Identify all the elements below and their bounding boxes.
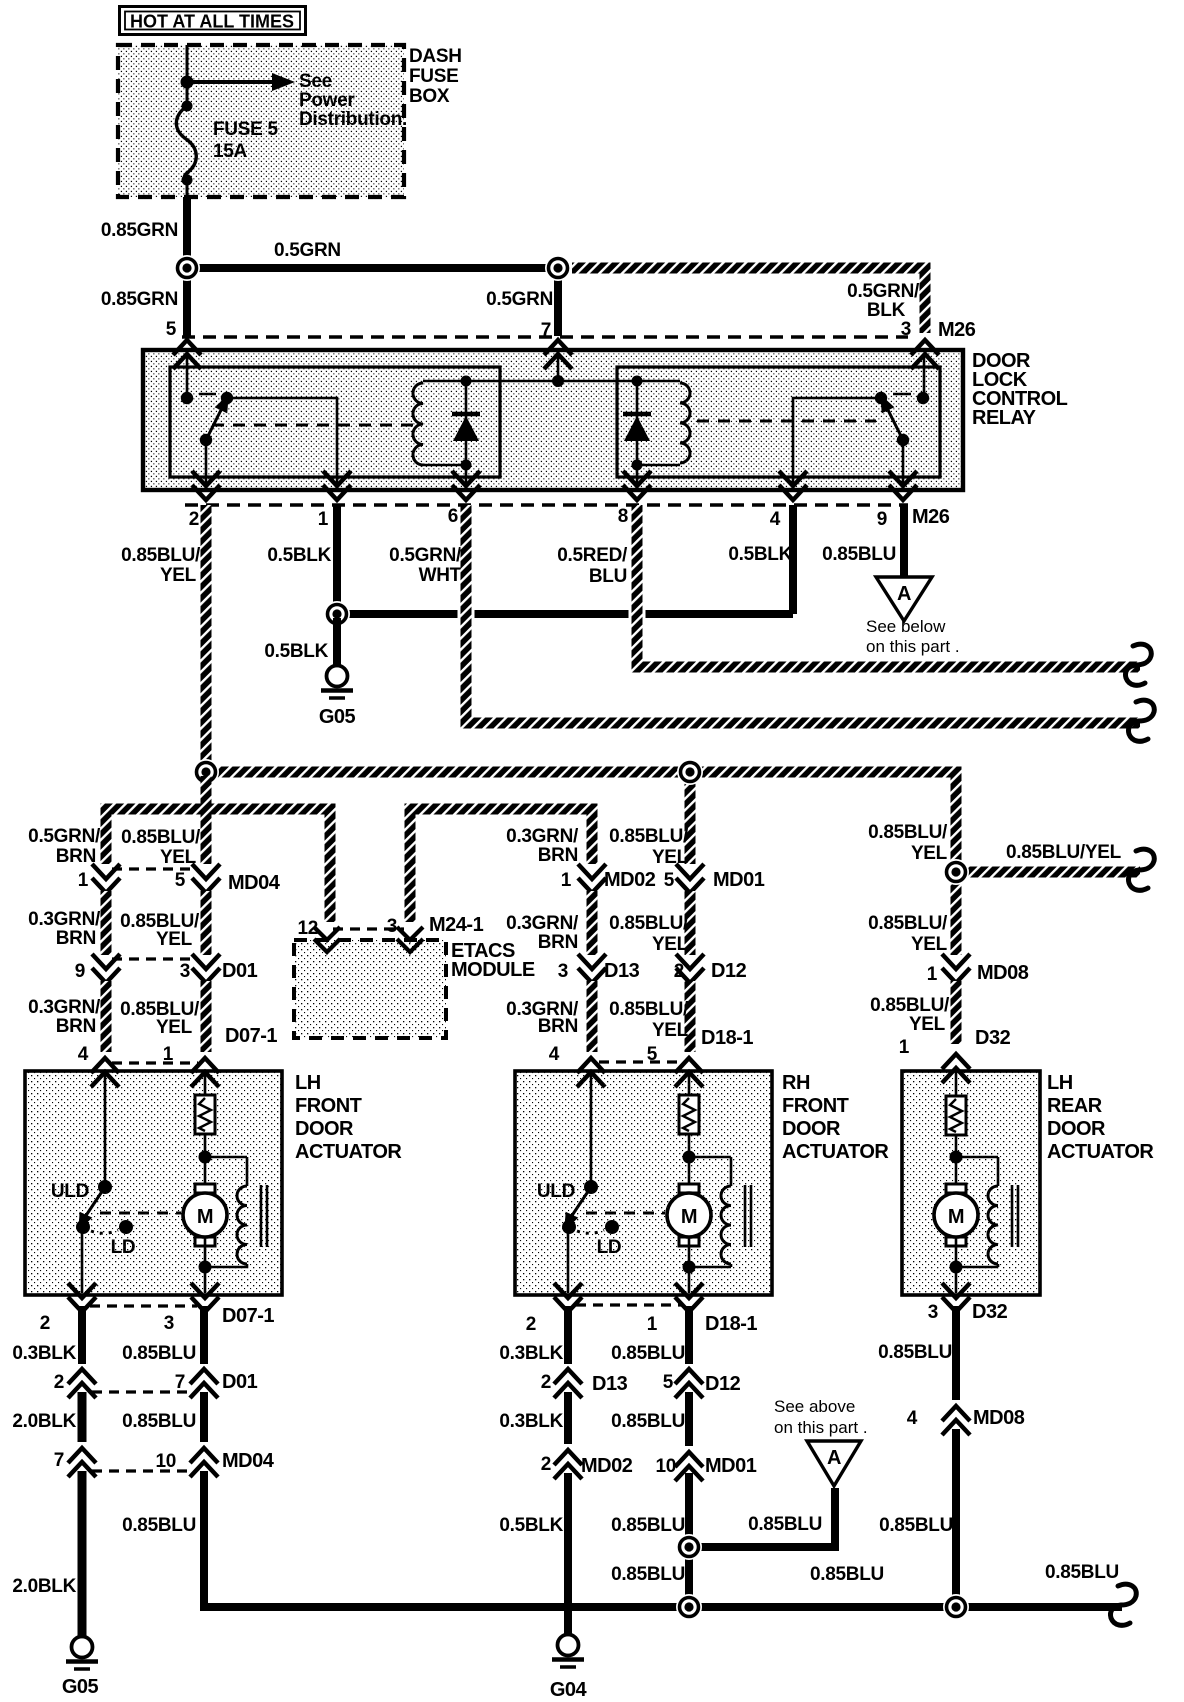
svg-text:10: 10 bbox=[655, 1456, 676, 1477]
core bars rear bbox=[1012, 1185, 1018, 1247]
wire 0.3BLK rh bbox=[564, 1306, 572, 1364]
label 0.85BLU/YEL branch bbox=[1006, 842, 1122, 863]
node bus ring left bbox=[193, 759, 219, 785]
wire 0.85BLU/YEL bus bbox=[206, 772, 956, 866]
svg-text:0.85BLU: 0.85BLU bbox=[822, 544, 896, 565]
hook pin6 wire bbox=[1128, 700, 1154, 741]
module ETACS box bbox=[294, 940, 446, 1038]
svg-text:D13: D13 bbox=[592, 1373, 628, 1395]
label MD02 pin bbox=[561, 870, 572, 891]
wire 0.5BLK to ground bbox=[333, 618, 341, 666]
svg-text:8: 8 bbox=[618, 506, 628, 527]
svg-text:ACTUATOR: ACTUATOR bbox=[295, 1141, 402, 1163]
node relay sw1 common bbox=[200, 434, 212, 446]
wire 0.85GRN to pin 5 bbox=[183, 272, 191, 336]
wire coil branch bottom LH bbox=[205, 1264, 247, 1267]
svg-text:5: 5 bbox=[166, 319, 177, 340]
wire 0.85BLU lh2 bbox=[200, 1392, 208, 1442]
svg-text:0.85BLU: 0.85BLU bbox=[611, 1343, 685, 1364]
mech link K2 dashed bbox=[697, 420, 876, 423]
connector M24-1 pin12 arrows bbox=[314, 927, 340, 952]
svg-text:4: 4 bbox=[770, 509, 781, 530]
svg-text:9: 9 bbox=[877, 509, 887, 530]
svg-text:M26: M26 bbox=[938, 319, 976, 341]
wire coil rail bottom right bbox=[637, 464, 680, 467]
label DASH FUSE BOX bbox=[409, 46, 462, 107]
label 0.3GRN/BRN a bbox=[28, 909, 101, 949]
svg-text:YEL: YEL bbox=[909, 1014, 946, 1035]
wire 2.0BLK lh bbox=[78, 1392, 87, 1442]
label 0.5BLK pin1 bbox=[267, 545, 331, 566]
wire BLU/YEL to MD08 bbox=[951, 878, 962, 955]
svg-text:DOOR: DOOR bbox=[295, 1118, 354, 1140]
connector D01 pin3 arrows bbox=[192, 954, 220, 983]
switch relay K1 contact bbox=[206, 391, 235, 440]
svg-text:0.5BLK: 0.5BLK bbox=[264, 641, 328, 662]
svg-text:0.85BLU: 0.85BLU bbox=[810, 1564, 884, 1585]
relay inner box right bbox=[617, 367, 940, 477]
label D32 top bbox=[975, 1027, 1011, 1049]
label 0.5BLK ground bbox=[264, 641, 328, 662]
motor M LH bbox=[183, 1184, 227, 1246]
label 0.3BLK rh2 bbox=[499, 1411, 563, 1432]
label 0.5GRN/BLK bbox=[847, 281, 920, 321]
wire 0.5GRN/BLK hatched to pin 3 bbox=[572, 268, 925, 333]
pin 3 entry arrows bbox=[911, 340, 939, 369]
ground G04 bbox=[552, 1618, 584, 1667]
breaker rear bbox=[946, 1096, 966, 1135]
node K2 bottom bbox=[632, 460, 643, 471]
svg-text:FUSE 5: FUSE 5 bbox=[213, 119, 278, 140]
wire sw1 NC to pin1 bbox=[227, 398, 337, 489]
svg-text:0.85BLU: 0.85BLU bbox=[122, 1411, 196, 1432]
svg-text:BRN: BRN bbox=[56, 846, 96, 867]
connector D01 bottom arrows bbox=[68, 1369, 218, 1398]
pin 8 exit arrows bbox=[623, 471, 651, 500]
label D12 bbox=[711, 960, 747, 982]
svg-text:0.85BLU/: 0.85BLU/ bbox=[609, 913, 689, 934]
connector MD01 bottom arrows bbox=[675, 1452, 703, 1481]
svg-text:A: A bbox=[897, 583, 911, 605]
label 0.85BLU/YEL col right bbox=[868, 822, 948, 864]
node BLU/YEL right ring bbox=[943, 859, 969, 885]
svg-text:0.3GRN/: 0.3GRN/ bbox=[506, 913, 579, 934]
wire pin3 internal bbox=[923, 356, 926, 396]
coil solenoid LH bbox=[237, 1186, 247, 1264]
svg-text:BRN: BRN bbox=[538, 932, 578, 953]
node tie ring bbox=[324, 601, 350, 627]
label 0.85BLU rh1 bbox=[611, 1343, 685, 1364]
label D18-1 pins top bbox=[549, 1044, 658, 1065]
svg-text:LD: LD bbox=[111, 1237, 136, 1258]
wire 0.85BLU rear2 bbox=[952, 1429, 960, 1607]
svg-text:0.85GRN: 0.85GRN bbox=[101, 289, 178, 310]
svg-text:2: 2 bbox=[674, 961, 684, 982]
node fuse-top junction bbox=[181, 76, 194, 89]
actuator box RH FRONT RH bbox=[515, 1071, 772, 1295]
label D18-1 bottom bbox=[705, 1313, 757, 1335]
svg-text:D32: D32 bbox=[972, 1301, 1008, 1323]
label LD RH bbox=[597, 1237, 622, 1258]
wire 0.85BLU rh1 bbox=[685, 1306, 693, 1364]
svg-text:2: 2 bbox=[541, 1454, 551, 1475]
svg-text:See: See bbox=[299, 71, 332, 92]
node ring 1547 bbox=[676, 1534, 702, 1560]
svg-text:BOX: BOX bbox=[409, 86, 450, 107]
wire 0.85BLU/YEL col LH bbox=[201, 776, 212, 864]
svg-text:0.5GRN: 0.5GRN bbox=[486, 289, 553, 310]
svg-text:2: 2 bbox=[40, 1313, 50, 1334]
label pin 1 bbox=[318, 509, 329, 530]
svg-text:0.85BLU: 0.85BLU bbox=[748, 1514, 822, 1535]
wire motor feed LH bbox=[204, 1071, 207, 1095]
wire BLU/YEL D12-D18 bbox=[685, 981, 696, 1052]
connector D18-1 entry arrows bbox=[577, 1058, 703, 1087]
label 0.85BLU tri bbox=[748, 1514, 822, 1535]
pin 1 exit arrows bbox=[323, 471, 351, 500]
label MD08 pin top bbox=[927, 964, 938, 985]
svg-text:REAR: REAR bbox=[1047, 1095, 1103, 1117]
label 0.85BLU/YEL MD04 bbox=[121, 827, 201, 868]
svg-text:0.5GRN/: 0.5GRN/ bbox=[389, 545, 462, 566]
svg-text:0.85BLU: 0.85BLU bbox=[611, 1515, 685, 1536]
breaker LH bbox=[195, 1095, 215, 1134]
label D01 pins bbox=[75, 961, 190, 982]
label 0.85BLU rh2 bbox=[611, 1411, 685, 1432]
label D32 bottom bbox=[972, 1301, 1008, 1323]
node motor bottom LH bbox=[199, 1261, 212, 1274]
svg-text:YEL: YEL bbox=[911, 843, 948, 864]
label D13 bbox=[604, 960, 640, 982]
label 0.5GRN/BRN bbox=[28, 826, 101, 867]
wire 0.3BLK rh2 bbox=[564, 1392, 572, 1444]
symbol A triangle bottom bbox=[807, 1441, 861, 1486]
wire 0.3BLK lh bbox=[78, 1306, 86, 1364]
svg-text:0.5BLK: 0.5BLK bbox=[499, 1515, 563, 1536]
svg-text:YEL: YEL bbox=[156, 929, 193, 950]
svg-text:0.85BLU: 0.85BLU bbox=[122, 1515, 196, 1536]
svg-text:1: 1 bbox=[927, 964, 938, 985]
label MD04 bottom pins bbox=[54, 1450, 176, 1472]
svg-text:MD02: MD02 bbox=[581, 1455, 633, 1477]
mech link K1 dashed bbox=[212, 424, 418, 427]
actuator box LH FRONT LH bbox=[25, 1071, 282, 1295]
svg-text:YEL: YEL bbox=[156, 1017, 193, 1038]
svg-text:RH: RH bbox=[782, 1072, 810, 1094]
wire battery feed bbox=[186, 45, 189, 82]
svg-text:D01: D01 bbox=[222, 960, 258, 982]
svg-text:4: 4 bbox=[549, 1044, 560, 1065]
label HOT AT ALL TIMES bbox=[120, 7, 306, 35]
connector D01 bottom dashed bbox=[92, 1390, 192, 1393]
svg-text:on this part .: on this part . bbox=[866, 637, 960, 656]
wire rear coil branch bbox=[956, 1157, 998, 1186]
svg-text:0.3BLK: 0.3BLK bbox=[499, 1343, 563, 1364]
svg-text:0.5RED/: 0.5RED/ bbox=[557, 545, 628, 566]
label D07-1 top bbox=[225, 1025, 277, 1047]
label DOOR LOCK CONTROL RELAY bbox=[972, 350, 1068, 429]
svg-text:0.3BLK: 0.3BLK bbox=[499, 1411, 563, 1432]
node K1 coil bottom bbox=[461, 460, 472, 471]
label MD01 pin bbox=[664, 870, 675, 891]
wire 0.85BLU/YEL right branch bbox=[968, 867, 1140, 878]
svg-text:MD02: MD02 bbox=[604, 869, 656, 891]
label 0.3BLK lh bbox=[12, 1343, 76, 1364]
svg-text:G05: G05 bbox=[62, 1676, 99, 1698]
label pin 3 bbox=[901, 319, 911, 340]
svg-text:0.85BLU: 0.85BLU bbox=[611, 1411, 685, 1432]
coil K2 bbox=[680, 383, 690, 463]
node rear motor top bbox=[950, 1151, 963, 1164]
wire GRN/BRN D13-D18 bbox=[587, 981, 598, 1052]
svg-text:LD: LD bbox=[597, 1237, 622, 1258]
label LD LH bbox=[111, 1237, 136, 1258]
coil K1 bbox=[413, 383, 423, 465]
label D18-1 top bbox=[701, 1027, 753, 1049]
wire 0.5BLK pin1 down bbox=[333, 505, 341, 614]
fuse F5 bbox=[176, 82, 196, 186]
label 0.3GRN/BRN rh bbox=[506, 826, 579, 866]
label 0.85BLU/YEL rh bbox=[609, 826, 689, 868]
node motor top RH bbox=[683, 1151, 696, 1164]
svg-text:BRN: BRN bbox=[538, 1016, 578, 1037]
label MD08 top bbox=[977, 962, 1029, 984]
label D32 pin bottom bbox=[928, 1302, 938, 1323]
connector D13 bottom arrows bbox=[554, 1369, 582, 1398]
label 0.3GRN/BRN rh2 bbox=[506, 913, 579, 953]
label 0.85BLU/YEL d32 bbox=[870, 995, 950, 1035]
connector M26 bottom dashed line bbox=[185, 503, 908, 506]
svg-text:4: 4 bbox=[907, 1408, 918, 1429]
label pin 9 bbox=[877, 509, 887, 530]
node relay sw2 common bbox=[897, 434, 909, 446]
svg-text:MD08: MD08 bbox=[973, 1407, 1025, 1429]
node LD contact RH bbox=[605, 1220, 619, 1234]
wire 0.5GRN/WHT hatched pin6 bbox=[466, 505, 1140, 723]
label MD01 bbox=[713, 869, 765, 891]
motor M rear bbox=[934, 1184, 978, 1246]
symbol A triangle top bbox=[876, 577, 932, 621]
label See Power Distribution bbox=[299, 71, 407, 130]
svg-text:1: 1 bbox=[163, 1044, 174, 1065]
svg-text:0.5BLK: 0.5BLK bbox=[267, 545, 331, 566]
core bars LH bbox=[261, 1185, 267, 1247]
pin 2 exit arrows bbox=[192, 471, 220, 500]
svg-text:Distribution.: Distribution. bbox=[299, 109, 407, 130]
label D01 bbox=[222, 960, 258, 982]
svg-text:LH: LH bbox=[1047, 1072, 1073, 1094]
label LH REAR DOOR ACTUATOR bbox=[1047, 1072, 1154, 1163]
svg-text:MD04: MD04 bbox=[228, 872, 281, 894]
svg-text:BLK: BLK bbox=[867, 300, 906, 321]
mech link motor dashed LH bbox=[100, 1212, 181, 1215]
wire 0.85BLU lh3 bbox=[204, 1471, 1122, 1607]
actuator box LH REAR bbox=[902, 1071, 1040, 1295]
svg-text:2.0BLK: 2.0BLK bbox=[12, 1576, 76, 1597]
switch door lock RH bbox=[558, 1187, 591, 1234]
svg-text:5: 5 bbox=[647, 1044, 658, 1065]
label 0.3BLK rh bbox=[499, 1343, 563, 1364]
svg-text:D32: D32 bbox=[975, 1027, 1011, 1049]
switch door lock LH bbox=[72, 1187, 105, 1234]
coil rear solenoid bbox=[988, 1186, 998, 1264]
connector MD02 bottom arrows bbox=[554, 1450, 582, 1479]
svg-text:ACTUATOR: ACTUATOR bbox=[1047, 1141, 1154, 1163]
svg-text:5: 5 bbox=[663, 1372, 674, 1393]
label D12 bottom pin bbox=[663, 1372, 674, 1393]
wire 0.5BLK to G04 bbox=[564, 1473, 572, 1634]
svg-text:FRONT: FRONT bbox=[782, 1095, 849, 1117]
label M26 bottom bbox=[912, 506, 950, 528]
node bus ring b2 bbox=[943, 1594, 969, 1620]
relay box DOOR LOCK CONTROL RELAY bbox=[143, 350, 963, 490]
svg-text:0.85GRN: 0.85GRN bbox=[101, 220, 178, 241]
svg-text:1: 1 bbox=[561, 870, 572, 891]
label pin 7 bbox=[541, 320, 551, 341]
label 2.0BLK lh bbox=[12, 1411, 76, 1432]
label 0.85GRN lower bbox=[101, 289, 178, 310]
wire GRN/BRN D01-D07 bbox=[101, 981, 112, 1052]
svg-text:9: 9 bbox=[75, 961, 85, 982]
wire to pin 6 bbox=[465, 465, 468, 489]
label MD04 bbox=[228, 872, 281, 894]
core bars RH bbox=[745, 1185, 751, 1247]
connector D07-1 dashed top bbox=[112, 1061, 198, 1064]
svg-text:LH: LH bbox=[295, 1072, 321, 1094]
label 0.85BLU rear1 bbox=[878, 1342, 952, 1363]
svg-text:0.85BLU/: 0.85BLU/ bbox=[870, 995, 950, 1016]
node rail dots bbox=[461, 375, 643, 387]
wire GRN/BRN MD04-D01 bbox=[101, 891, 112, 955]
breaker RH bbox=[679, 1095, 699, 1134]
label See above on this part bbox=[774, 1397, 868, 1437]
svg-text:G04: G04 bbox=[550, 1679, 588, 1701]
wire coil branch bottom RH bbox=[689, 1264, 731, 1267]
wire 0.5GRN horizontal bbox=[187, 264, 558, 272]
label G05 bottom bbox=[62, 1676, 99, 1698]
label 0.85BLU/YEL b bbox=[120, 999, 200, 1038]
label MD02 bbox=[604, 869, 656, 891]
svg-text:D18-1: D18-1 bbox=[705, 1313, 757, 1335]
label 0.5BLK pin4 bbox=[728, 544, 792, 565]
svg-text:10: 10 bbox=[155, 1451, 176, 1472]
wire coil branch top RH bbox=[689, 1157, 731, 1186]
svg-text:0.3BLK: 0.3BLK bbox=[12, 1343, 76, 1364]
connector D12 arrows bbox=[676, 954, 704, 983]
mech link motor dashed RH bbox=[586, 1212, 665, 1215]
wire 0.85BLU to triangle bbox=[689, 1488, 835, 1547]
svg-text:7: 7 bbox=[54, 1450, 64, 1471]
svg-text:MD01: MD01 bbox=[705, 1455, 757, 1477]
svg-text:G05: G05 bbox=[319, 706, 356, 728]
connector MD08 arrows top bbox=[942, 954, 970, 983]
label D13 pin bbox=[558, 961, 568, 982]
wire coil rail top bbox=[423, 380, 680, 383]
svg-text:3: 3 bbox=[164, 1313, 174, 1334]
svg-text:7: 7 bbox=[175, 1372, 185, 1393]
label MD04 pins bbox=[78, 870, 186, 891]
connector MD08 bottom arrows bbox=[942, 1406, 970, 1435]
svg-text:5: 5 bbox=[175, 870, 186, 891]
D18-1 exit arrows bbox=[554, 1283, 703, 1312]
coil solenoid RH bbox=[721, 1186, 731, 1264]
svg-text:2: 2 bbox=[189, 509, 199, 530]
label pin 3 etacs bbox=[387, 916, 397, 937]
svg-text:YEL: YEL bbox=[160, 565, 197, 586]
svg-text:D13: D13 bbox=[604, 960, 640, 982]
svg-text:RELAY: RELAY bbox=[972, 407, 1037, 429]
svg-text:on this part .: on this part . bbox=[774, 1418, 868, 1437]
svg-text:2.0BLK: 2.0BLK bbox=[12, 1411, 76, 1432]
node relay sw2 fixed bbox=[875, 392, 929, 404]
svg-text:ULD: ULD bbox=[537, 1181, 575, 1202]
label D32 pin top bbox=[899, 1037, 910, 1058]
svg-text:0.85BLU: 0.85BLU bbox=[611, 1564, 685, 1585]
connector M26 top dashed line bbox=[182, 335, 908, 338]
connector D07-1 dashed bottom bbox=[90, 1304, 197, 1307]
label FUSE 5 15A bbox=[213, 119, 278, 162]
svg-text:1: 1 bbox=[318, 509, 329, 530]
wire 0.85BLU rear1 bbox=[952, 1306, 960, 1400]
svg-text:DOOR: DOOR bbox=[1047, 1118, 1106, 1140]
wire bus to MD01 bbox=[685, 777, 696, 864]
connector MD01 pin5 arrows bbox=[676, 864, 704, 893]
link switch dotted RH bbox=[577, 1230, 604, 1233]
label 0.85BLU bus2 bbox=[810, 1564, 884, 1585]
svg-text:WHT: WHT bbox=[419, 565, 462, 586]
svg-text:DOOR: DOOR bbox=[782, 1118, 841, 1140]
svg-text:3: 3 bbox=[928, 1302, 938, 1323]
connector MD04 dashed bbox=[112, 867, 198, 870]
svg-text:0.85BLU/: 0.85BLU/ bbox=[868, 913, 948, 934]
wire 0.85BLU lh1 bbox=[200, 1306, 208, 1364]
wire motor to pin LH bbox=[204, 1238, 207, 1293]
svg-text:3: 3 bbox=[387, 916, 397, 937]
node motor top LH bbox=[199, 1151, 212, 1164]
label M26 top bbox=[938, 319, 976, 341]
svg-text:YEL: YEL bbox=[652, 847, 689, 868]
connector D01 pin9 arrows bbox=[92, 954, 120, 983]
label See below on this part bbox=[866, 617, 960, 656]
svg-text:5: 5 bbox=[664, 870, 675, 891]
wire sw2 NC to pin4 bbox=[793, 398, 881, 489]
label MD04 bottom bbox=[222, 1450, 275, 1472]
connector MD04 pin5 arrows bbox=[192, 864, 220, 893]
svg-text:6: 6 bbox=[448, 506, 458, 527]
label D13 bottom bbox=[592, 1373, 628, 1395]
svg-text:D07-1: D07-1 bbox=[222, 1305, 274, 1327]
node relay sw1 fixed bbox=[181, 392, 233, 404]
svg-text:0.5GRN/: 0.5GRN/ bbox=[847, 281, 920, 302]
D07-1 exit arrows bbox=[68, 1283, 219, 1312]
label 0.5GRN lower bbox=[486, 289, 553, 310]
label D18-1 pins bottom bbox=[526, 1314, 658, 1335]
svg-text:0.85BLU: 0.85BLU bbox=[1045, 1562, 1119, 1583]
switch relay K2 contact bbox=[874, 391, 903, 440]
node switch common LH bbox=[76, 1220, 90, 1234]
wire sw2 common to pin9 bbox=[902, 440, 905, 489]
wire 0.85BLU rh2 bbox=[685, 1392, 693, 1446]
wire motor to pin RH bbox=[688, 1238, 691, 1293]
label 0.5RED/BLU pin8 bbox=[557, 545, 628, 587]
label ULD RH bbox=[537, 1181, 575, 1202]
label pin 12 bbox=[297, 918, 318, 939]
svg-text:MD01: MD01 bbox=[713, 869, 765, 891]
node ULD contact RH bbox=[584, 1180, 598, 1194]
pin 7 entry arrows bbox=[544, 340, 572, 369]
svg-text:3: 3 bbox=[180, 961, 190, 982]
wire rear motor feed bbox=[955, 1071, 958, 1096]
